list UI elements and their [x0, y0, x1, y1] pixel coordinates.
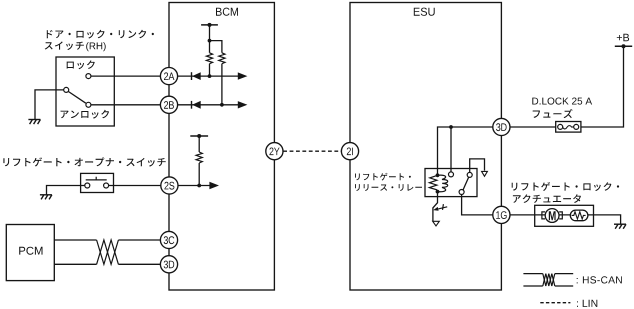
connector pin 2B (BCM door unlock input): [160, 96, 177, 113]
transistor Q1 driver arrow: [438, 207, 447, 209]
liftgate opener switch SW2 box: [81, 173, 114, 192]
wire 3D to relay coil: [438, 127, 493, 175]
label +B: [617, 34, 629, 41]
label liftgate release relay line2: [355, 184, 422, 191]
relay terminal NO: [449, 172, 454, 177]
label liftgate opener switch: [3, 157, 165, 166]
wire opener switch to 2S: [109, 185, 161, 187]
wire supply to 2S resistor: [198, 136, 200, 152]
arrow relay output (hollow): [482, 171, 488, 176]
wire junction to relay NO terminal: [450, 127, 452, 172]
resistor pull-up right: [219, 53, 225, 64]
label liftgate release relay line1: [355, 173, 411, 181]
connector pin 2Y (BCM LIN): [266, 143, 283, 160]
ground door switch: [28, 120, 40, 125]
connector pin 3D (ESU battery input): [493, 118, 510, 135]
wire fuse to +B: [581, 46, 624, 127]
ground opener switch: [40, 195, 52, 200]
wire lock contact to 2A: [91, 75, 160, 77]
wire resistor left to 2A line: [209, 64, 211, 76]
junction: [208, 74, 212, 78]
ground actuator: [614, 224, 626, 229]
label liftgate lock actuator line1: [512, 182, 619, 191]
label D.LOCK 25 A: [532, 98, 592, 105]
relay K1 box: [425, 169, 477, 197]
connector pin 2I (ESU LIN): [341, 143, 358, 160]
wire 2B internal: [178, 104, 239, 106]
wire common contact to ground: [35, 90, 64, 120]
wire 2S internal: [178, 185, 210, 187]
arrow coil return (hollow): [433, 221, 440, 226]
arrow 2B to logic: [238, 101, 248, 108]
wire supply to resistors: [210, 25, 222, 53]
relay coil L1: [429, 175, 447, 192]
legend HS-CAN twisted pair symbol: [523, 274, 573, 286]
fuse element: [563, 126, 574, 129]
wire resistor right to 2B line: [221, 64, 223, 105]
ESU label: [414, 8, 435, 16]
coil terminal top: [436, 173, 440, 177]
connector pin 3C (BCM CAN-H): [160, 231, 177, 248]
label liftgate lock actuator line2: [513, 194, 581, 203]
fuse F1 D.LOCK 25A box: [556, 122, 581, 133]
opener switch push bar: [86, 177, 107, 180]
BCM module box: [169, 3, 274, 291]
internal supply T-bar top: [201, 24, 218, 26]
wire unlock contact to 2B: [91, 104, 160, 106]
connector pin 3D (BCM CAN-L): [160, 256, 177, 273]
wire PCM to 3C (CAN high): [54, 239, 160, 241]
diode D1 on 2A line: [191, 72, 193, 80]
label door lock link switch (RH) line2: [45, 41, 84, 50]
label door lock link switch (RH) line1: [47, 30, 154, 39]
connector pin 2A (BCM door lock input): [160, 68, 177, 85]
label unlock: [61, 110, 110, 119]
wire opener switch to ground: [47, 186, 85, 195]
motor M1: [542, 209, 562, 223]
common contact: [64, 87, 69, 92]
resistor 2S pull-up: [196, 152, 202, 163]
thermal protector PTC: [570, 210, 588, 221]
unlock contact: [86, 102, 91, 107]
opener contact left: [85, 183, 90, 188]
opener contact right: [104, 183, 109, 188]
power +B T-bar: [615, 45, 632, 47]
junction: [449, 125, 453, 129]
relay terminal common: [459, 190, 464, 195]
twisted pair HS-CAN bus: [97, 240, 119, 264]
fuse terminal left: [558, 124, 563, 129]
label fuse (katakana): [533, 109, 573, 118]
door lock link switch SW1 box: [56, 57, 114, 126]
coil terminal bottom: [436, 190, 440, 194]
arrow 2S to logic: [209, 182, 219, 189]
wire PCM to 3D (CAN low): [54, 263, 160, 265]
switch blade: [68, 92, 85, 104]
label lock: [67, 60, 95, 69]
internal supply T-bar for 2S pull-up: [190, 135, 208, 137]
legend LIN text: [577, 300, 597, 307]
fuse terminal right: [574, 124, 579, 129]
relay terminal top: [467, 172, 472, 177]
wire relay contact to output arrow: [470, 159, 485, 173]
legend HS-CAN text: [577, 276, 622, 283]
PCM module box: [6, 225, 54, 281]
wire coil to driver transistor: [433, 192, 438, 222]
connector pin 1G (ESU actuator output): [493, 206, 510, 223]
wire relay common to 1G: [462, 195, 493, 215]
legend LIN dashed line: [540, 302, 570, 304]
PCM label: [19, 247, 42, 255]
wire LIN bus 2Y to 2I (dashed): [283, 150, 341, 152]
wire 2A internal: [178, 75, 239, 77]
arrow 2A to logic: [238, 72, 248, 79]
lock contact: [86, 74, 91, 79]
diode D2 on 2B line: [191, 101, 193, 109]
liftgate lock actuator box: [535, 205, 594, 226]
BCM label: [216, 8, 238, 16]
ESU module box: [350, 3, 501, 291]
junction: [197, 184, 201, 188]
wire resistor to 2S line: [198, 163, 200, 186]
wire 3D to fuse: [510, 126, 556, 128]
wire 1G to actuator and ground: [510, 215, 621, 224]
connector pin 2S (BCM opener switch input): [161, 177, 178, 194]
relay switch blade: [463, 177, 469, 190]
junction: [220, 103, 224, 107]
junction: [208, 39, 212, 43]
resistor pull-up left: [206, 53, 212, 64]
